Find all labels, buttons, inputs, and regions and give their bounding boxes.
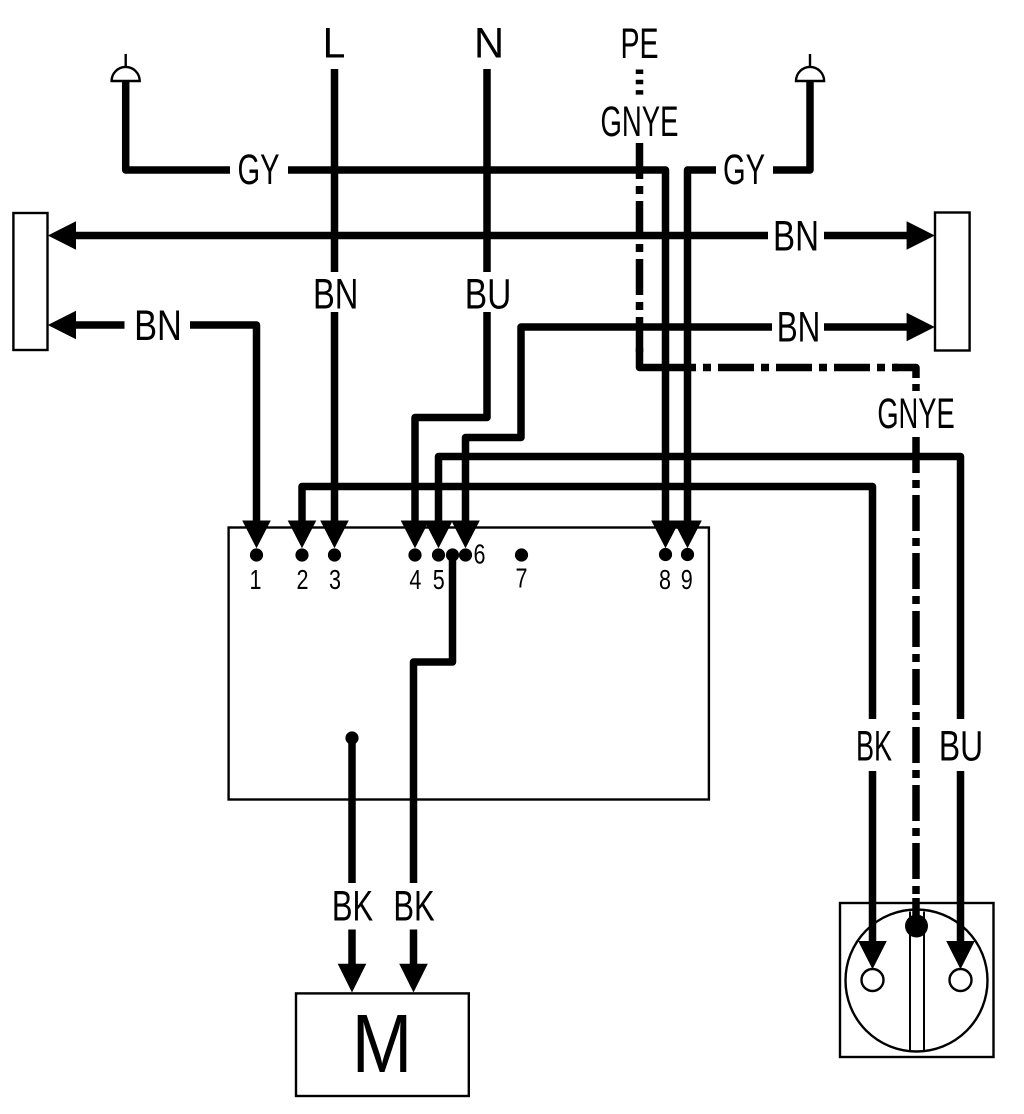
svg-text:BU: BU	[465, 271, 512, 319]
svg-text:4: 4	[409, 564, 421, 595]
svg-text:BK: BK	[332, 881, 373, 929]
svg-text:M: M	[352, 996, 412, 1090]
svg-text:1: 1	[250, 564, 262, 595]
svg-text:9: 9	[681, 564, 693, 595]
svg-text:BN: BN	[773, 212, 819, 260]
svg-text:6: 6	[474, 539, 486, 570]
svg-text:N: N	[474, 19, 504, 67]
svg-text:L: L	[323, 19, 346, 67]
svg-text:5: 5	[433, 564, 445, 595]
svg-text:BN: BN	[134, 302, 182, 349]
svg-text:BN: BN	[313, 270, 358, 318]
svg-text:GNYE: GNYE	[877, 389, 954, 438]
svg-text:BK: BK	[856, 721, 892, 770]
svg-text:PE: PE	[620, 19, 658, 67]
svg-text:2: 2	[297, 564, 309, 595]
svg-text:8: 8	[659, 564, 671, 595]
svg-text:BU: BU	[939, 723, 983, 771]
svg-text:GNYE: GNYE	[601, 97, 679, 146]
svg-text:BN: BN	[777, 303, 821, 351]
svg-text:GY: GY	[723, 145, 765, 193]
svg-text:3: 3	[329, 564, 341, 595]
svg-text:BK: BK	[393, 881, 434, 929]
svg-text:7: 7	[516, 563, 528, 594]
svg-text:GY: GY	[237, 145, 279, 193]
